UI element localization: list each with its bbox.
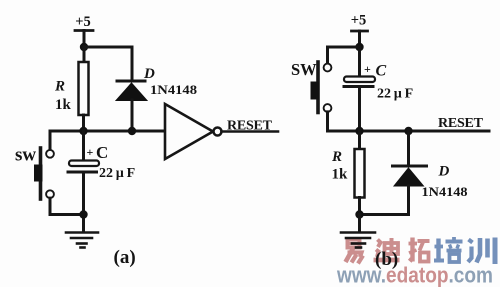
node: resistor junction dot (a) (79, 127, 87, 135)
wire: ground node to ground symbol (b) (358, 215, 361, 232)
svg-text:1N4148: 1N4148 (422, 184, 469, 199)
svg-text:R: R (54, 79, 65, 95)
wire: inverter output RESET (a) (222, 130, 279, 133)
diode D (a) (116, 81, 147, 101)
capacitor C (b) (344, 77, 375, 87)
svg-text:C: C (96, 143, 108, 162)
op-amp U1 inverter (a) (165, 104, 222, 159)
wire: main horizontal net RESET (b) (360, 130, 490, 133)
capacitor C (a) (68, 161, 99, 173)
node: ground junction dot (a) (79, 210, 87, 218)
node: +5 junction dot (b) (355, 43, 363, 51)
wire: main net down to diode cathode (b) (407, 131, 410, 165)
+5 supply terminal (b) (352, 31, 368, 47)
char yi (red) (346, 240, 364, 264)
svg-text:www.edatop.com: www.edatop.com (336, 263, 493, 287)
wire: diode anode down to main node (a) (131, 100, 134, 131)
svg-text:+5: +5 (75, 14, 91, 30)
svg-text:1N4148: 1N4148 (150, 82, 198, 97)
svg-text:SW: SW (291, 60, 317, 79)
switch sw pushbutton (a) (34, 131, 54, 199)
wire: capacitor bottom to ground (a) (82, 173, 85, 232)
wire: main horizontal net (a) (50, 130, 165, 133)
wire: capacitor bottom to main net (b) (358, 88, 361, 131)
svg-text:+: + (364, 62, 371, 76)
svg-text:D: D (143, 66, 155, 82)
wire: resistor bottom to main node (a) (82, 115, 85, 131)
wire: +5 node down to capacitor (b) (358, 47, 361, 76)
node: cap/resistor junction dot (b) (355, 127, 363, 135)
node: diode junction dot (a) (128, 127, 136, 135)
svg-text:+: + (87, 145, 94, 159)
switch SW pushbutton (b) (311, 62, 332, 113)
svg-text:22 µ F: 22 µ F (377, 87, 413, 102)
char pei (blue) (434, 237, 463, 262)
char tuo (red) (409, 238, 430, 262)
watermark chinese characters (346, 237, 496, 264)
char di (red) (374, 238, 400, 260)
+5 supply terminal (a) (75, 31, 93, 48)
svg-text:22 µ F: 22 µ F (99, 166, 135, 181)
svg-text:RESET: RESET (227, 119, 273, 134)
wire: switch bottom to ground node (a) (50, 198, 84, 214)
node: ground junction dot (b) (355, 210, 363, 218)
resistor R (b) (355, 149, 365, 198)
svg-text:1k: 1k (55, 97, 72, 113)
node: diode junction dot (b) (404, 127, 412, 135)
wire: resistor bottom to ground node (b) (358, 198, 361, 216)
svg-text:R: R (331, 149, 342, 165)
svg-text:1k: 1k (332, 167, 349, 183)
wire: main node down to capacitor (a) (82, 131, 85, 160)
diode D (b) (393, 166, 427, 186)
wire: +5 node left and down to switch top (b) (328, 47, 360, 64)
svg-text:C: C (376, 63, 387, 80)
ground (b) (341, 233, 375, 248)
wire: main net down to resistor top (b) (358, 131, 361, 149)
svg-text:sw: sw (15, 145, 36, 166)
svg-text:D: D (438, 164, 450, 180)
resistor R (a) (79, 62, 89, 115)
svg-text:+5: +5 (351, 13, 367, 29)
ground (a) (66, 233, 98, 248)
node: +5 junction dot (a) (80, 43, 88, 51)
wire: switch bottom to main net (b) (328, 112, 360, 131)
svg-text:(a): (a) (114, 247, 136, 268)
char xun (blue) (468, 238, 495, 265)
svg-text:(b): (b) (375, 249, 398, 270)
wire: +5 node right and down to diode cathode (a) (84, 47, 132, 80)
wire: diode anode down and left to ground node (b) (360, 186, 409, 215)
wire: +5 node down to resistor top (a) (83, 47, 86, 62)
svg-text:RESET: RESET (438, 116, 484, 131)
